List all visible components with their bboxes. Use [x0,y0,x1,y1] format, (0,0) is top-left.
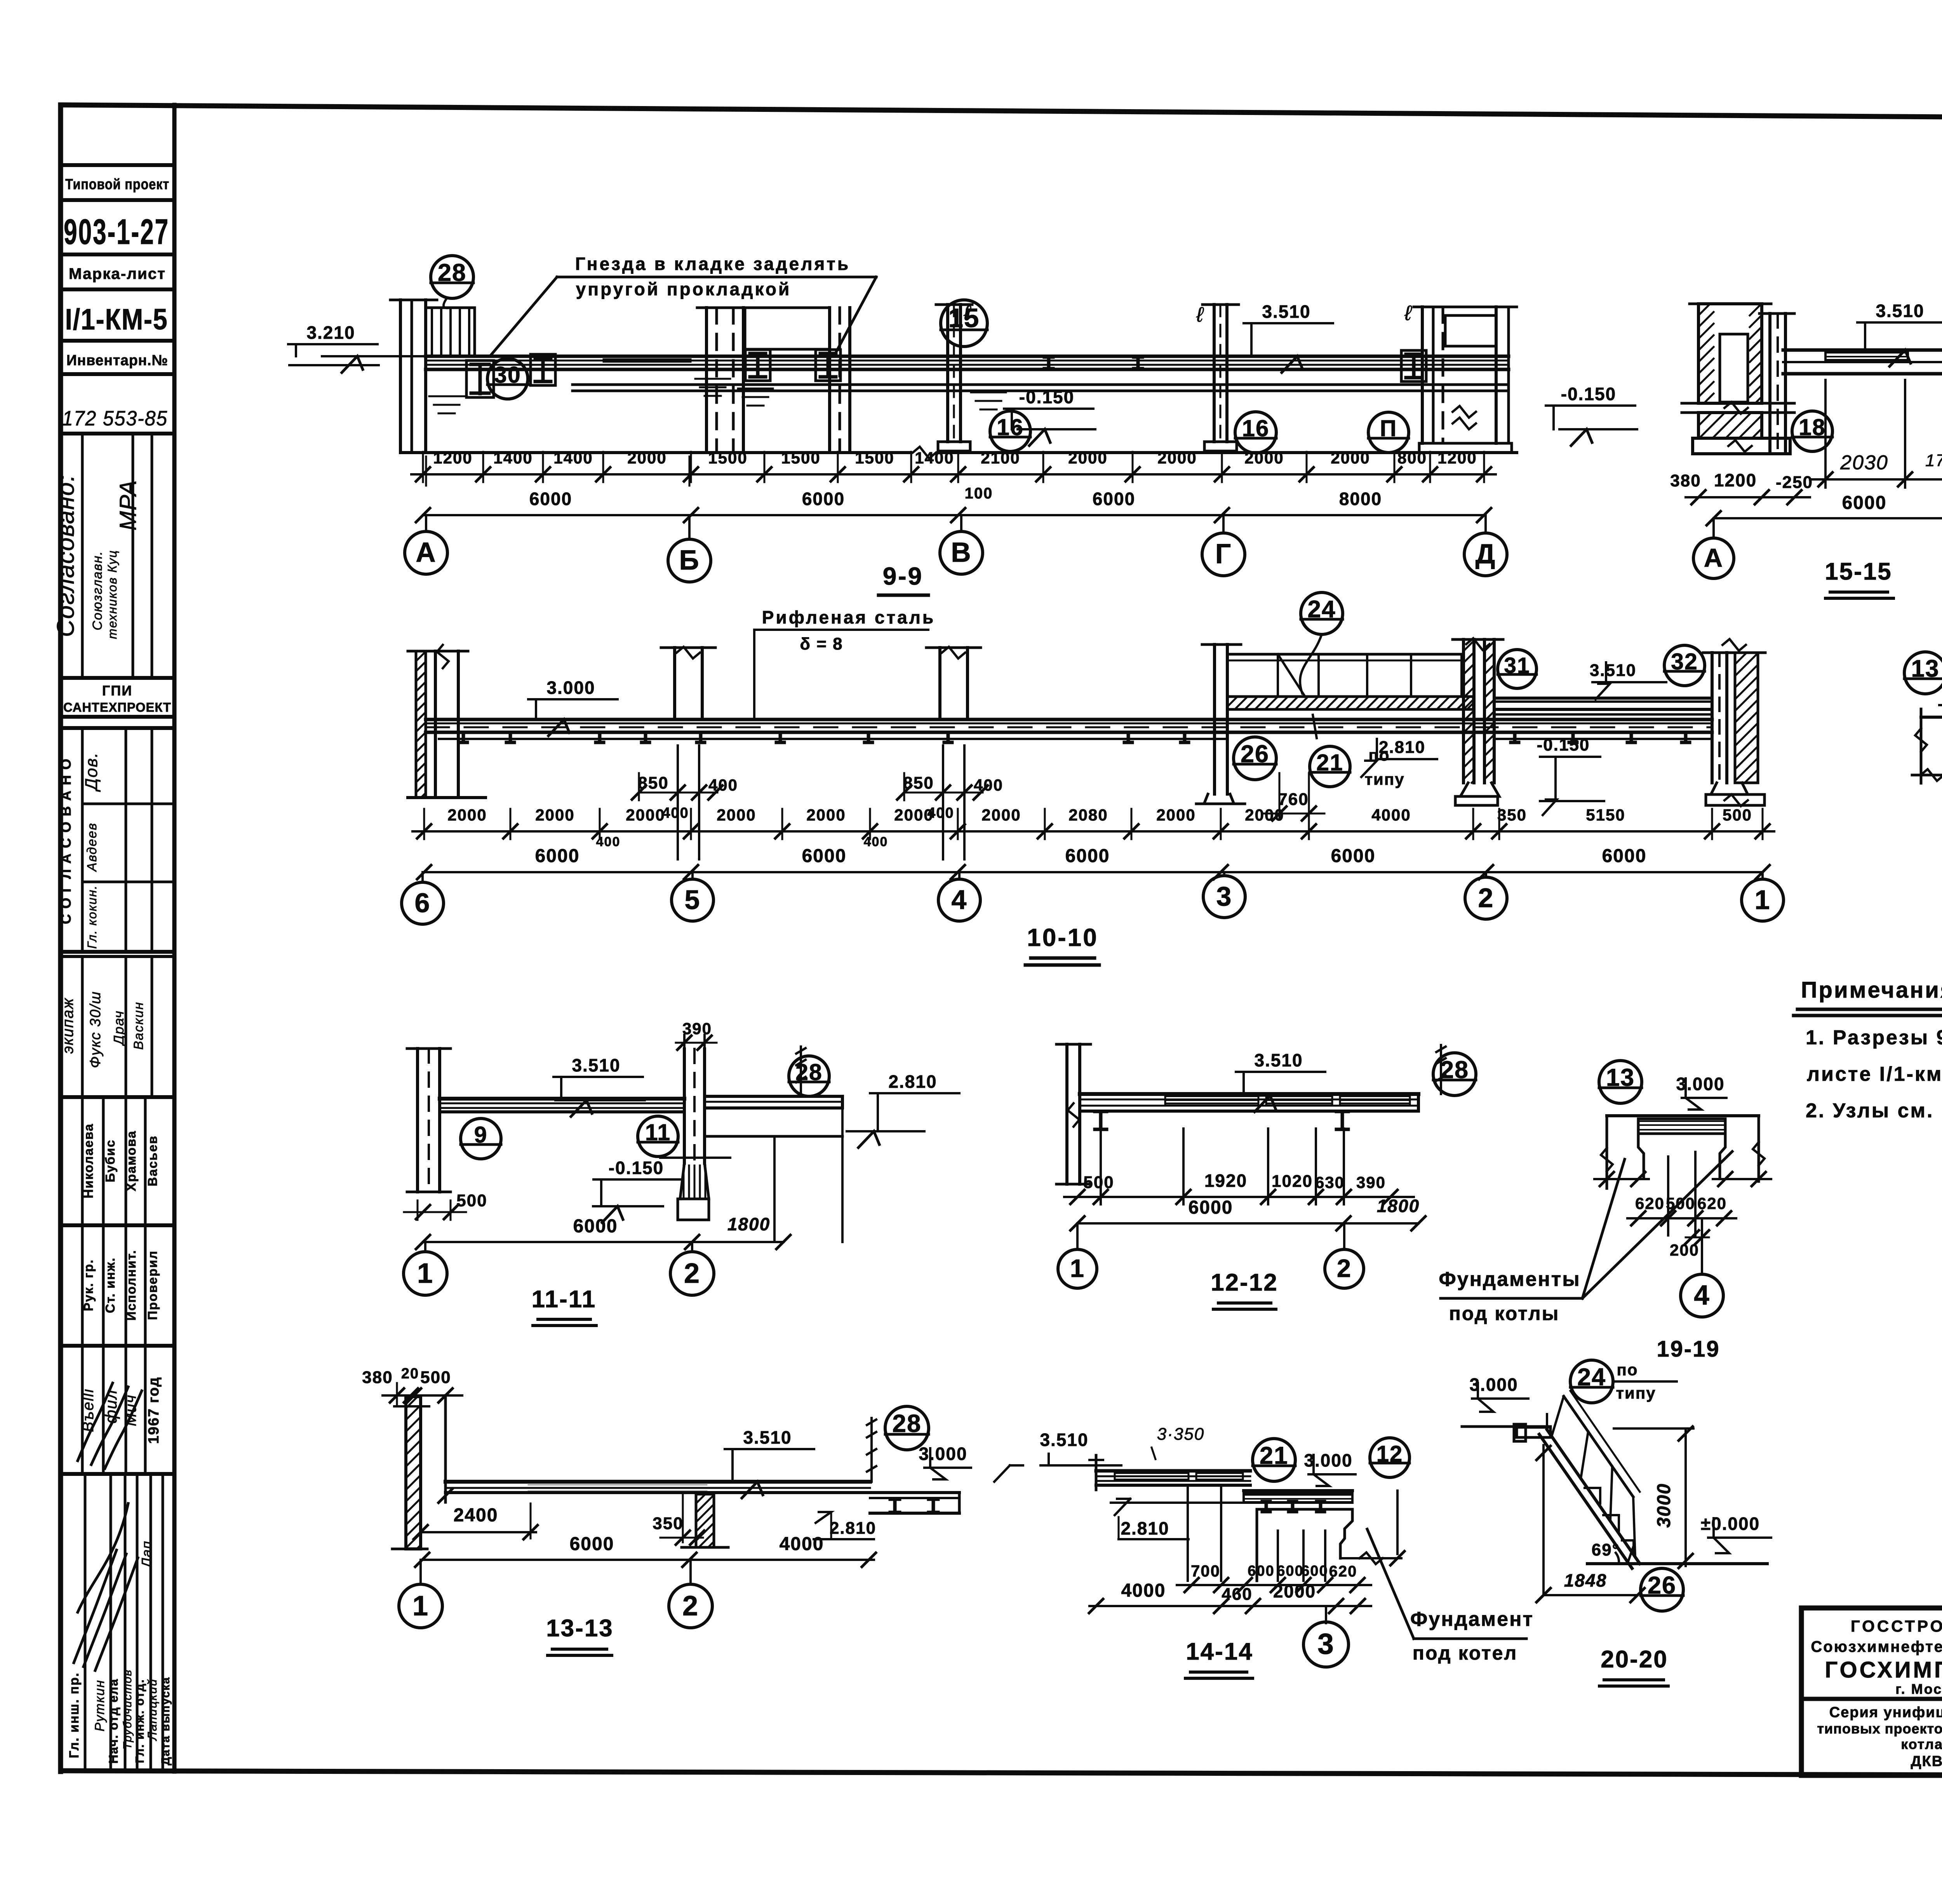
svg-text:2080: 2080 [1068,806,1108,824]
svg-text:620: 620 [1329,1563,1357,1580]
svg-text:1500: 1500 [855,449,894,467]
svg-text:С О Г Л А С О В А Н О: С О Г Л А С О В А Н О [58,758,74,924]
svg-text:2000: 2000 [626,806,665,824]
svg-text:28: 28 [1440,1056,1469,1084]
svg-text:3.000: 3.000 [546,678,595,698]
svg-text:г. Москва: г. Москва [1895,1681,1942,1697]
svg-text:26: 26 [1241,740,1269,768]
svg-text:2030: 2030 [1840,451,1888,474]
svg-text:2.810: 2.810 [830,1519,876,1538]
svg-text:31: 31 [1504,653,1530,678]
svg-text:11-11: 11-11 [532,1286,597,1313]
svg-text:13-13: 13-13 [546,1615,614,1642]
svg-text:Гл. инж. отд.: Гл. инж. отд. [133,1679,146,1763]
svg-text:400: 400 [974,776,1003,794]
svg-text:5150: 5150 [1586,806,1625,824]
svg-text:24: 24 [1577,1364,1606,1391]
svg-text:Лап: Лап [139,1540,155,1568]
svg-text:2000: 2000 [1244,449,1284,467]
svg-text:10-10: 10-10 [1027,923,1098,951]
svg-text:1800: 1800 [727,1214,770,1234]
svg-text:3.510: 3.510 [1876,301,1924,321]
svg-text:2: 2 [684,1258,700,1289]
svg-text:Фукс 30/ш: Фукс 30/ш [87,991,104,1068]
svg-text:Лапицкий: Лапицкий [145,1678,159,1741]
svg-text:ДКВР: ДКВР [1911,1753,1942,1770]
svg-text:24: 24 [1308,596,1336,623]
svg-text:500: 500 [456,1191,487,1210]
svg-text:1848: 1848 [1564,1570,1607,1590]
svg-text:3.000: 3.000 [1676,1074,1724,1094]
svg-text:2000: 2000 [981,806,1021,824]
svg-text:2000: 2000 [806,806,846,824]
svg-text:630: 630 [1315,1173,1345,1192]
svg-text:1: 1 [417,1258,433,1289]
svg-text:Исполнит.: Исполнит. [124,1250,138,1321]
svg-text:4: 4 [1694,1280,1710,1311]
svg-text:3: 3 [1216,881,1232,911]
svg-text:12-12: 12-12 [1211,1269,1278,1296]
svg-text:850: 850 [903,773,934,793]
svg-text:800: 800 [1397,449,1427,467]
svg-text:-0.150: -0.150 [1561,384,1616,404]
svg-text:1200: 1200 [1437,449,1477,467]
svg-text:390: 390 [1356,1173,1386,1192]
svg-text:32: 32 [1671,649,1698,674]
svg-text:26: 26 [1648,1572,1676,1599]
svg-text:ℓ: ℓ [1404,301,1412,325]
svg-text:380: 380 [1670,471,1701,490]
svg-text:28: 28 [795,1059,823,1085]
svg-text:2000: 2000 [1331,449,1370,467]
svg-text:2000: 2000 [447,806,487,824]
svg-text:Типовой проект: Типовой проект [65,176,169,193]
svg-text:2000: 2000 [717,806,756,824]
svg-text:1: 1 [1070,1254,1085,1282]
svg-text:2: 2 [1478,883,1494,913]
svg-text:16: 16 [997,415,1024,440]
svg-text:1705: 1705 [1925,451,1942,470]
svg-text:Примечания:: Примечания: [1801,977,1942,1003]
svg-text:1. Разрезы 9-9 ÷ 20-20 зам: 1. Разрезы 9-9 ÷ 20-20 замаркированы на [1806,1026,1942,1049]
svg-text:Драч: Драч [111,1010,127,1047]
svg-text:28: 28 [892,1409,921,1437]
svg-text:котлами: котлами [1901,1736,1942,1752]
svg-text:экипаж: экипаж [59,998,77,1054]
svg-text:1200: 1200 [1714,470,1757,490]
svg-text:2.810: 2.810 [888,1071,937,1092]
svg-text:ℓ: ℓ [963,301,971,325]
svg-text:6000: 6000 [1189,1197,1233,1218]
svg-text:2000: 2000 [1245,806,1284,824]
svg-text:6000: 6000 [1065,846,1110,866]
svg-text:9-9: 9-9 [883,562,924,590]
svg-text:400: 400 [864,834,888,849]
svg-text:460: 460 [1222,1585,1252,1604]
svg-text:3·350: 3·350 [1157,1425,1205,1444]
svg-text:2000: 2000 [1157,449,1197,467]
svg-text:380: 380 [362,1368,393,1387]
svg-text:-250: -250 [1776,473,1813,492]
svg-text:Васкин: Васкин [131,1002,146,1050]
svg-text:13: 13 [1911,655,1940,682]
svg-text:14-14: 14-14 [1186,1638,1253,1665]
svg-text:упругой прокладкой: упругой прокладкой [576,279,792,299]
svg-text:Проверил: Проверил [145,1250,160,1320]
svg-text:6000: 6000 [802,846,847,866]
svg-text:А: А [416,537,436,568]
svg-text:6000: 6000 [1602,846,1647,866]
svg-text:3.000: 3.000 [1304,1450,1352,1470]
svg-text:ГОССТРОЙ СССР: ГОССТРОЙ СССР [1851,1617,1942,1635]
svg-text:16: 16 [1242,415,1270,441]
svg-text:3: 3 [1317,1627,1335,1660]
svg-text:ГПИ: ГПИ [102,683,132,699]
svg-text:3.510: 3.510 [572,1055,620,1075]
svg-text:4000: 4000 [1121,1580,1166,1601]
svg-text:6000: 6000 [529,489,572,509]
svg-text:6000: 6000 [802,489,845,509]
svg-text:Ст. инж.: Ст. инж. [103,1257,117,1313]
svg-text:2: 2 [682,1590,699,1622]
svg-text:21: 21 [1260,1442,1288,1469]
svg-text:1: 1 [1755,885,1771,915]
svg-text:2000: 2000 [1156,806,1195,824]
svg-text:700: 700 [1191,1562,1220,1580]
svg-text:Нач. отд ела: Нач. отд ела [106,1678,120,1764]
svg-text:Г: Г [1215,539,1232,570]
svg-text:2.810: 2.810 [1121,1518,1169,1538]
svg-text:21: 21 [1316,750,1343,775]
svg-text:Рифленая сталь: Рифленая сталь [762,607,935,627]
svg-text:Д: Д [1476,539,1496,570]
svg-text:1500: 1500 [781,449,820,467]
svg-text:МРА: МРА [115,479,141,530]
svg-text:620: 620 [1635,1194,1665,1212]
svg-text:П: П [1380,416,1397,441]
svg-text:Гл. кокин.: Гл. кокин. [85,885,99,949]
svg-text:Рук. гр.: Рук. гр. [81,1259,96,1311]
svg-text:6000: 6000 [573,1216,618,1237]
svg-text:типу: типу [1616,1384,1656,1402]
svg-text:2000: 2000 [1068,449,1107,467]
svg-text:под котел: под котел [1413,1642,1517,1664]
svg-text:типу: типу [1364,770,1404,788]
svg-text:1400: 1400 [915,449,954,467]
svg-text:δ = 8: δ = 8 [800,634,843,653]
svg-text:Гнезда в кладке заделять: Гнезда в кладке заделять [575,254,850,274]
svg-text:2000: 2000 [627,449,666,467]
svg-text:6000: 6000 [1331,846,1376,866]
svg-text:Руткин: Руткин [92,1679,107,1732]
svg-text:фил: фил [102,1389,120,1423]
svg-text:1500: 1500 [708,449,747,467]
svg-text:Серия унифицированных: Серия унифицированных [1829,1704,1942,1721]
svg-text:Союзглавн.: Союзглавн. [90,550,105,630]
svg-text:28: 28 [438,259,466,286]
svg-text:Союзхимнефтестройпроект: Союзхимнефтестройпроект [1811,1638,1942,1655]
svg-text:13: 13 [1606,1064,1635,1091]
svg-text:350: 350 [653,1514,683,1533]
svg-text:Трубочистов: Трубочистов [121,1669,134,1749]
svg-text:Марка-лист: Марка-лист [69,265,166,282]
svg-text:В: В [951,537,971,568]
svg-text:-0.150: -0.150 [1537,735,1590,754]
svg-text:3.000: 3.000 [919,1444,967,1464]
svg-text:2400: 2400 [454,1505,498,1526]
svg-text:11: 11 [645,1120,671,1145]
svg-text:3.510: 3.510 [1590,661,1636,680]
svg-text:69°: 69° [1592,1540,1620,1559]
svg-text:400: 400 [708,776,738,794]
svg-text:350: 350 [1497,806,1527,824]
svg-text:Николаева: Николаева [81,1123,96,1198]
svg-text:1400: 1400 [553,449,593,467]
svg-text:Васьев: Васьев [145,1135,160,1186]
svg-text:500: 500 [420,1368,451,1387]
svg-text:Фундамент: Фундамент [1410,1608,1534,1631]
svg-text:6000: 6000 [570,1534,614,1554]
svg-text:3.510: 3.510 [1262,301,1310,322]
svg-text:4000: 4000 [1371,806,1411,824]
svg-text:типовых проектов котельных с: типовых проектов котельных с [1817,1721,1942,1737]
svg-text:20-20: 20-20 [1601,1646,1668,1673]
svg-text:9: 9 [474,1122,488,1148]
svg-text:под котлы: под котлы [1449,1303,1560,1324]
svg-text:1020: 1020 [1272,1172,1313,1191]
svg-text:1200: 1200 [433,449,472,467]
svg-text:20: 20 [401,1366,419,1382]
svg-text:Фундаменты: Фундаменты [1439,1268,1580,1291]
svg-text:1967 год: 1967 год [146,1376,162,1444]
svg-text:19-19: 19-19 [1657,1336,1720,1362]
svg-text:2. Узлы см. на листах I/: 2. Узлы см. на листах I/2 км-4 ÷ км-10. [1806,1099,1942,1122]
svg-text:ГОСХИМПРОЕКТ: ГОСХИМПРОЕКТ [1825,1657,1942,1683]
svg-text:600: 600 [1301,1563,1328,1579]
svg-text:172 553-85: 172 553-85 [62,407,168,430]
svg-text:1800: 1800 [1377,1196,1420,1216]
svg-text:техников Куц: техников Куц [105,550,119,639]
svg-text:6000: 6000 [1093,489,1135,509]
svg-text:-0.150: -0.150 [1019,387,1074,407]
svg-text:2000: 2000 [1273,1581,1316,1601]
svg-text:Б: Б [679,545,700,576]
svg-text:5: 5 [685,885,701,915]
svg-text:500: 500 [1723,806,1752,824]
svg-text:903-1-27: 903-1-27 [64,212,169,252]
svg-text:4000: 4000 [780,1534,824,1554]
svg-text:3000: 3000 [1654,1483,1674,1528]
svg-text:100: 100 [965,485,993,502]
svg-text:2100: 2100 [981,449,1020,467]
svg-text:30: 30 [494,362,521,388]
svg-text:400: 400 [662,805,689,821]
svg-text:I/1-КМ-5: I/1-КМ-5 [65,303,168,336]
svg-text:Храмова: Храмова [124,1131,138,1192]
svg-text:15-15: 15-15 [1825,558,1892,585]
svg-text:Авдеев: Авдеев [85,822,99,872]
svg-text:2: 2 [1337,1254,1352,1282]
svg-text:листе I/1-км-2.: листе I/1-км-2. [1807,1063,1942,1085]
svg-text:3.510: 3.510 [1040,1430,1088,1450]
svg-text:Согласовано:: Согласовано: [52,474,79,637]
svg-text:600: 600 [1248,1563,1274,1579]
svg-text:1920: 1920 [1204,1171,1247,1191]
svg-text:8000: 8000 [1339,489,1382,509]
svg-text:САНТЕХПРОЕКТ: САНТЕХПРОЕКТ [63,700,171,714]
svg-text:Дов.: Дов. [82,752,101,793]
svg-text:Бубис: Бубис [103,1139,117,1183]
svg-text:Инвентарн.№: Инвентарн.№ [66,352,168,369]
svg-text:2.810: 2.810 [1379,738,1425,757]
svg-text:400: 400 [596,834,621,849]
svg-text:ℓ: ℓ [1196,303,1204,326]
svg-text:-0.150: -0.150 [609,1158,664,1178]
svg-text:6000: 6000 [535,846,580,866]
svg-text:200: 200 [1670,1241,1699,1259]
svg-text:390: 390 [682,1019,712,1038]
svg-text:2000: 2000 [535,806,574,824]
svg-text:18: 18 [1799,415,1826,440]
svg-text:6000: 6000 [1842,493,1887,513]
svg-text:±0.000: ±0.000 [1701,1514,1760,1534]
svg-text:600: 600 [1277,1563,1303,1579]
svg-text:Дата выпуска: Дата выпуска [159,1677,172,1765]
svg-text:620: 620 [1697,1194,1727,1212]
svg-text:3.210: 3.210 [306,322,355,343]
svg-text:500: 500 [1083,1173,1114,1192]
svg-text:1400: 1400 [493,449,532,467]
svg-text:А: А [1704,544,1723,573]
svg-text:6: 6 [415,888,431,918]
svg-text:2000: 2000 [894,806,933,824]
svg-text:850: 850 [638,773,668,793]
svg-text:по: по [1617,1360,1638,1379]
svg-text:1: 1 [412,1590,429,1622]
svg-text:Гл. инш. пр.: Гл. инш. пр. [67,1672,82,1758]
svg-text:3.510: 3.510 [1254,1050,1303,1070]
svg-text:12: 12 [1376,1441,1403,1467]
svg-text:4: 4 [952,885,968,915]
svg-text:3.510: 3.510 [743,1427,792,1448]
